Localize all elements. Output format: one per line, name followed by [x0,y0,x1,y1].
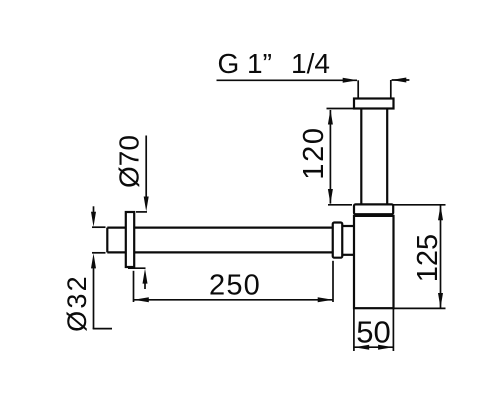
wall flange disc [126,212,134,267]
O32 upper stub line [93,206,95,213]
125 arrow down [438,293,443,308]
120 dimension line [329,110,331,204]
trap body [354,216,394,308]
125 arrow up [438,205,443,220]
120 extension tick bottom (nut top extended) [328,204,352,206]
250 arrow right [318,297,333,302]
slip nut above body [354,204,393,214]
inlet boss bottom line [342,254,354,256]
250 extension line left [133,271,135,302]
vertical pipe right wall [386,109,388,205]
O32 arrow up (bottom) [91,253,96,268]
G dim arrow right-pointing [343,78,358,83]
svg-text:G 1”: G 1” [218,48,272,79]
50 extension line right [392,308,394,351]
vertical pipe left wall [360,109,362,205]
O32 tick at pipe bottom [92,252,106,254]
50 arrow left [354,345,369,350]
O70 leader line [145,136,147,201]
G extension line left (thread OD left) [357,80,359,98]
svg-text:Ø32: Ø32 [62,274,92,332]
svg-text:120: 120 [298,126,330,180]
250 arrow left [134,297,149,302]
horizontal pipe top wall [107,227,333,229]
svg-text:125: 125 [412,234,444,282]
O70 lower arrow tail [144,281,146,289]
120 extension tick top (flange bottom extended) [327,108,355,110]
horizontal pipe left end cap [106,228,108,253]
O70 leader arrow down [144,197,149,212]
250 dimension line [134,299,334,301]
svg-text:250: 250 [209,270,261,302]
O32 tick at pipe top [92,226,106,228]
120 arrow up [328,110,333,125]
top flange (thread connector cap) [354,99,394,109]
125 extension tick top [393,204,445,206]
svg-text:Ø70: Ø70 [114,135,145,188]
O32 lower line down to label [93,267,95,330]
50 dimension line [354,346,394,348]
250 extension line right [332,261,334,302]
svg-text:50: 50 [356,315,390,350]
G dimension tail line right [392,79,410,81]
G dimension line (left part with underline of label) [217,79,358,81]
G dim arrow left-pointing [391,78,406,83]
G extension line right (thread OD right) [390,80,392,99]
O32 bottom hook [93,328,112,330]
O70 lower arrow up [143,269,148,284]
125 extension tick bottom (body bottom extended) [394,307,446,309]
horizontal pipe bottom wall [107,251,333,253]
inlet compression nut [333,223,343,258]
125 dimension line [440,206,442,308]
50 arrow right [378,345,393,350]
120 arrow down [328,189,333,204]
svg-text:1/4: 1/4 [291,48,330,79]
O32 arrow down (top) [91,212,96,227]
50 extension line left [353,308,355,351]
inlet boss top line [342,225,354,227]
O70 lower tick at flange bottom [128,267,146,269]
O70 leader tick at flange top [136,211,147,213]
